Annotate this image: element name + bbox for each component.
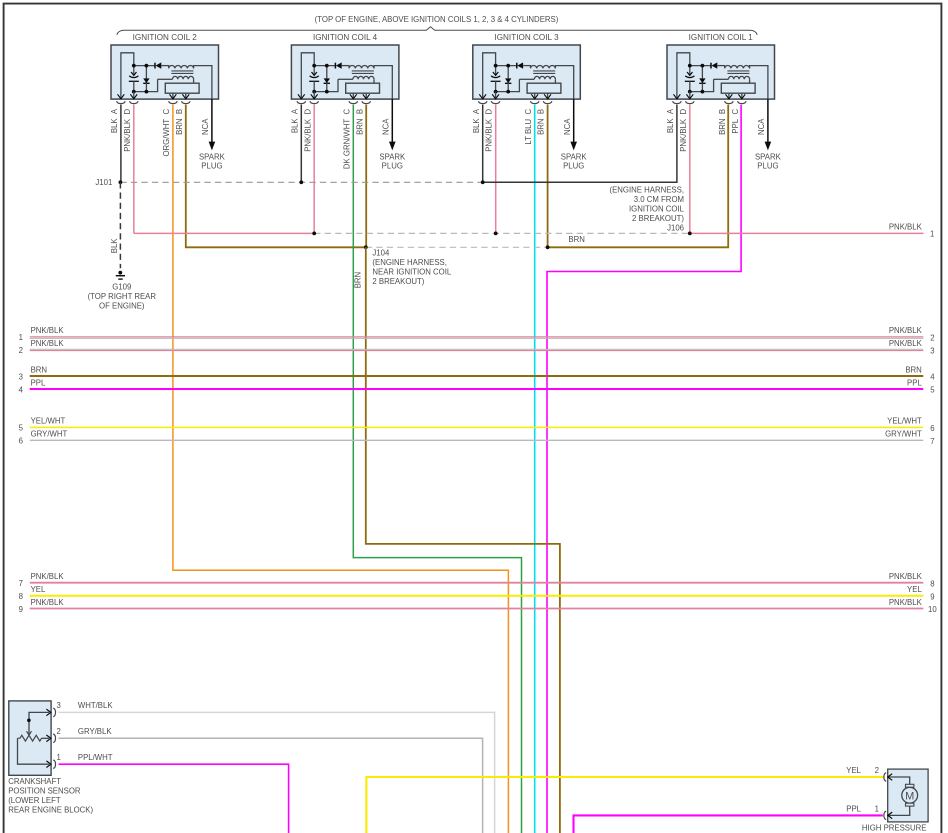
svg-text:BRN: BRN: [31, 365, 47, 374]
svg-text:GRY/WHT: GRY/WHT: [31, 430, 68, 439]
resistor to pin2: [42, 737, 49, 739]
wire PNK/BLK exit right circuit 1: [690, 232, 924, 234]
svg-text:GRY/WHT: GRY/WHT: [885, 430, 922, 439]
svg-text:4: 4: [930, 373, 935, 382]
svg-text:3: 3: [19, 372, 23, 381]
wire YEL row 8-9: [30, 595, 924, 597]
svg-text:NEAR IGNITION COIL: NEAR IGNITION COIL: [372, 268, 452, 277]
node dots pink splice: [312, 232, 316, 236]
node dots brn splice: [364, 245, 368, 249]
wire PNK/BLK coil3 D: [495, 105, 497, 234]
wire PNK/BLK coil2-coil4 segment: [134, 232, 314, 234]
svg-text:8: 8: [19, 592, 23, 601]
svg-text:YEL: YEL: [31, 585, 46, 594]
wire PNK/BLK row 1-2: [30, 336, 924, 338]
wire BLK coil1 A routed to J101: [483, 105, 677, 183]
svg-text:PNK/BLK: PNK/BLK: [31, 339, 65, 348]
wire BRN coil2 B: [186, 105, 366, 248]
svg-text:LT BLU C: LT BLU C: [524, 109, 533, 145]
svg-text:2 BREAKOUT): 2 BREAKOUT): [632, 214, 684, 223]
svg-text:PNK/BLK: PNK/BLK: [889, 572, 923, 581]
svg-text:10: 10: [928, 605, 937, 614]
wire PNK/BLK row 7-8: [30, 582, 924, 584]
svg-text:BRN B: BRN B: [175, 109, 184, 135]
svg-text:YEL: YEL: [907, 585, 922, 594]
splice PNK/BLK J106 bus: [314, 232, 690, 234]
svg-text:PNK/BLK: PNK/BLK: [889, 339, 923, 348]
node dot: [27, 719, 31, 723]
svg-text:6: 6: [19, 437, 23, 446]
sensor connector cups: [53, 708, 55, 717]
svg-text:PNK/BLK: PNK/BLK: [889, 598, 923, 607]
pump pin arrows: [888, 774, 892, 781]
wire DK GRN/WHT coil4 C: [353, 105, 521, 833]
wire GRY/BLK pin2: [59, 738, 483, 833]
svg-text:IGNITION COIL 3: IGNITION COIL 3: [494, 33, 559, 42]
splice J101 dashed bus: [120, 181, 482, 183]
wire BRN coil1 B: [548, 105, 729, 248]
svg-text:J106: J106: [667, 224, 684, 233]
svg-text:1: 1: [57, 753, 61, 762]
svg-text:(LOWER LEFT: (LOWER LEFT: [8, 796, 61, 805]
svg-text:9: 9: [930, 593, 934, 602]
svg-text:OF ENGINE): OF ENGINE): [99, 302, 145, 311]
svg-text:WHT/BLK: WHT/BLK: [78, 701, 113, 710]
ignition coil 3 box: [472, 45, 588, 171]
svg-text:BRN B: BRN B: [718, 109, 727, 135]
svg-text:YEL: YEL: [846, 766, 861, 775]
svg-text:3: 3: [930, 347, 934, 356]
svg-text:YEL/WHT: YEL/WHT: [887, 417, 922, 426]
wire BLK coil2 A to J101: [120, 105, 122, 183]
wire PNK/BLK row 9-10: [30, 608, 924, 610]
ground G109: [118, 271, 122, 275]
svg-text:4: 4: [19, 385, 24, 394]
wire BRN coil4 B to J104: [365, 105, 367, 248]
svg-text:BRN B: BRN B: [355, 109, 364, 135]
pump connector cups: [884, 773, 886, 782]
svg-text:PPL C: PPL C: [731, 109, 740, 134]
svg-text:2: 2: [875, 766, 879, 775]
svg-text:IGNITION COIL 1: IGNITION COIL 1: [689, 33, 754, 42]
arrow down to resistor: [27, 731, 32, 735]
svg-text:POSITION SENSOR: POSITION SENSOR: [8, 787, 81, 796]
wire PPL to pump pin1: [574, 815, 883, 833]
wire BRN coil3 B: [547, 105, 549, 248]
wire BLK coil4 A to J101: [300, 105, 302, 183]
wire PNK/BLK coil1 D to J106: [689, 105, 691, 234]
sensor pin arrows: [46, 709, 50, 716]
svg-text:(ENGINE HARNESS,: (ENGINE HARNESS,: [609, 186, 684, 195]
svg-text:IGNITION COIL: IGNITION COIL: [629, 205, 685, 214]
wire BLK coil3 A to J101: [482, 105, 484, 183]
svg-text:J101: J101: [95, 178, 112, 187]
wire BRN row 3-4: [30, 375, 924, 377]
splice BRN J104 bus: [366, 246, 548, 248]
wire PPL/WHT pin1: [59, 764, 289, 833]
wire LT BLU coil3 C: [534, 105, 536, 833]
svg-text:GRY/BLK: GRY/BLK: [78, 727, 112, 736]
wire YEL to pump pin2: [366, 777, 884, 833]
svg-text:PPL: PPL: [846, 804, 861, 813]
svg-text:2 BREAKOUT): 2 BREAKOUT): [372, 277, 424, 286]
svg-text:PPL: PPL: [907, 378, 922, 387]
svg-text:(TOP RIGHT REAR: (TOP RIGHT REAR: [88, 292, 157, 301]
wire BLK dashed to G109: [119, 182, 121, 268]
svg-text:2: 2: [930, 334, 934, 343]
svg-text:BRN: BRN: [568, 235, 584, 244]
svg-text:IGNITION COIL 2: IGNITION COIL 2: [133, 33, 198, 42]
svg-text:ORG/WHT C: ORG/WHT C: [162, 109, 171, 157]
svg-text:PNK/BLK: PNK/BLK: [31, 598, 65, 607]
wire PNK/BLK row 2-3: [30, 348, 924, 350]
svg-text:YEL/WHT: YEL/WHT: [31, 417, 66, 426]
svg-text:5: 5: [930, 386, 935, 395]
svg-text:PNK/BLK: PNK/BLK: [31, 326, 65, 335]
svg-text:M: M: [905, 790, 914, 802]
svg-text:PPL/WHT: PPL/WHT: [78, 753, 113, 762]
svg-text:1: 1: [875, 804, 879, 813]
svg-text:J104: J104: [372, 249, 390, 258]
sensor internal wiring: [29, 712, 49, 733]
svg-text:PNK/BLK: PNK/BLK: [889, 326, 923, 335]
svg-text:2: 2: [57, 727, 61, 736]
svg-text:8: 8: [930, 579, 934, 588]
svg-text:(ENGINE HARNESS,: (ENGINE HARNESS,: [372, 258, 447, 267]
motor caps: [906, 784, 914, 787]
svg-text:BLK: BLK: [110, 238, 119, 254]
wire YEL/WHT row 5-6: [30, 426, 924, 428]
svg-text:3.0 CM FROM: 3.0 CM FROM: [634, 195, 684, 204]
svg-text:BRN: BRN: [354, 272, 363, 288]
node J101 dots: [119, 180, 123, 184]
wire PNK/BLK coil4 D: [313, 105, 315, 234]
svg-text:HIGH PRESSURE: HIGH PRESSURE: [862, 824, 927, 833]
svg-text:2: 2: [19, 346, 23, 355]
bracket under note: [117, 27, 757, 35]
ignition coil 1 box: [666, 45, 782, 171]
svg-text:G109: G109: [112, 282, 131, 291]
svg-text:7: 7: [930, 437, 934, 446]
ignition coil 4 box: [290, 45, 406, 171]
svg-text:9: 9: [19, 605, 23, 614]
svg-text:5: 5: [19, 424, 24, 433]
wire GRY/WHT row 6-7: [30, 439, 924, 441]
svg-text:CRANKSHAFT: CRANKSHAFT: [8, 777, 61, 786]
left leg to pin1: [18, 738, 49, 764]
wire PPL coil1 C: [547, 105, 741, 833]
high pressure fuel pump box: [888, 769, 928, 822]
svg-text:PNK/BLK: PNK/BLK: [889, 223, 923, 232]
crankshaft position sensor box: [9, 701, 51, 775]
svg-text:7: 7: [19, 579, 23, 588]
svg-text:BRN B: BRN B: [537, 109, 546, 135]
wire PNK/BLK coil2 D: [133, 105, 135, 234]
svg-text:DK GRN/WHT C: DK GRN/WHT C: [342, 109, 351, 170]
wire ORG/WHT coil2 C: [173, 105, 509, 833]
wire WHT/BLK pin3: [59, 712, 495, 833]
resistor zigzag: [18, 735, 42, 741]
svg-text:IGNITION COIL 4: IGNITION COIL 4: [313, 33, 378, 42]
svg-text:BRN: BRN: [905, 365, 921, 374]
svg-text:3: 3: [57, 701, 61, 710]
wire PPL row 4-5: [30, 388, 924, 390]
pump internal wires: [888, 777, 909, 784]
svg-text:REAR ENGINE BLOCK): REAR ENGINE BLOCK): [8, 806, 93, 815]
svg-text:PNK/BLK: PNK/BLK: [31, 572, 65, 581]
wire BRN bus down from J104: [366, 247, 560, 833]
svg-text:6: 6: [930, 424, 934, 433]
svg-text:1: 1: [930, 229, 934, 238]
svg-text:1: 1: [19, 333, 23, 342]
svg-text:PPL: PPL: [31, 378, 46, 387]
svg-text:(TOP OF ENGINE, ABOVE IGNITION: (TOP OF ENGINE, ABOVE IGNITION COILS 1, …: [315, 15, 559, 24]
ignition coil 2 box: [110, 45, 226, 171]
motor M circle: [902, 787, 918, 803]
